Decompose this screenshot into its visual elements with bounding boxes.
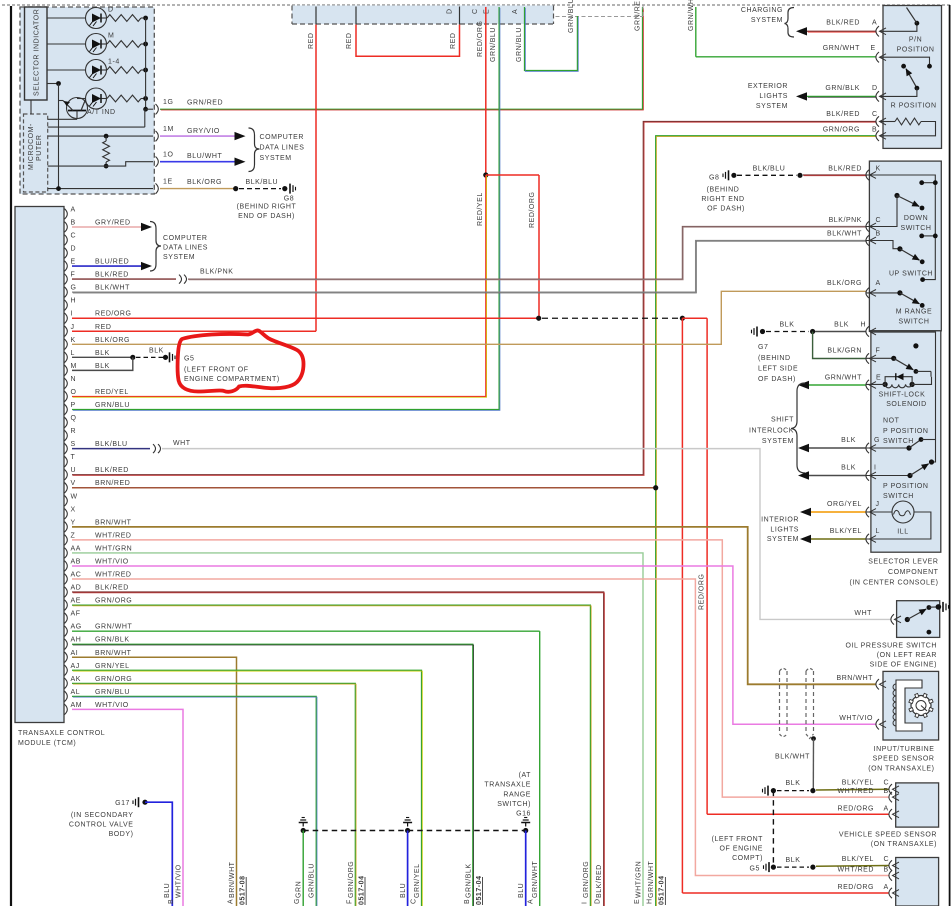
svg-text:T: T bbox=[71, 454, 76, 461]
svg-text:(LEFT FRONT: (LEFT FRONT bbox=[712, 836, 764, 843]
wire BLK/WHT pin G bbox=[72, 241, 866, 293]
svg-text:O: O bbox=[71, 389, 77, 396]
wire GRN/YEL pin AJ bbox=[72, 670, 422, 906]
svg-text:GRN/WHT: GRN/WHT bbox=[825, 374, 862, 381]
svg-text:A: A bbox=[228, 899, 235, 904]
svg-text:1-4: 1-4 bbox=[108, 59, 120, 66]
svg-text:RED: RED bbox=[308, 33, 315, 49]
wire GRY/RED pin B bbox=[72, 226, 141, 228]
svg-text:SWITCH: SWITCH bbox=[883, 493, 914, 500]
wire RED/ORG to VSS1 pin A bbox=[706, 318, 708, 814]
svg-text:INTERIOR: INTERIOR bbox=[761, 517, 799, 524]
svg-text:(LEFT FRONT OF: (LEFT FRONT OF bbox=[184, 367, 249, 374]
svg-text:V: V bbox=[71, 480, 76, 487]
wire BLK/ORG pin K to M range switch bbox=[72, 291, 866, 344]
TCM pin S bbox=[65, 443, 68, 453]
resistor row M bbox=[107, 41, 141, 48]
svg-text:A: A bbox=[872, 20, 877, 27]
svg-text:X: X bbox=[71, 506, 76, 513]
pin H internal rail bbox=[871, 332, 936, 462]
wire BRN/RED pin V bbox=[72, 487, 656, 489]
TCM pin C bbox=[65, 235, 68, 245]
svg-text:GRN/ORG: GRN/ORG bbox=[823, 127, 860, 134]
transistor Q1 bbox=[67, 98, 88, 119]
svg-text:AA: AA bbox=[71, 545, 81, 552]
vehicle speed sensor box (1) bbox=[896, 783, 939, 827]
svg-text:(IN CENTER CONSOLE): (IN CENTER CONSOLE) bbox=[849, 580, 938, 587]
TCM pin F bbox=[65, 274, 68, 284]
wire GRN/BLK to P/N pin D bbox=[796, 92, 807, 100]
page right border bbox=[949, 5, 951, 906]
wire GRN/BLK pin AH bbox=[72, 644, 473, 906]
svg-text:BRN/RED: BRN/RED bbox=[95, 480, 130, 487]
TCM pin H bbox=[65, 300, 68, 310]
M range switch bbox=[866, 288, 869, 298]
svg-text:BLK: BLK bbox=[149, 347, 164, 354]
TCM pin O bbox=[65, 391, 68, 401]
svg-text:BLK/GRN: BLK/GRN bbox=[827, 348, 862, 355]
svg-text:WHT/VIO: WHT/VIO bbox=[176, 864, 183, 898]
svg-text:SHIFT: SHIFT bbox=[771, 417, 794, 424]
svg-text:G: G bbox=[874, 437, 880, 444]
computer data lines bracket (top) bbox=[249, 128, 260, 172]
svg-text:Z: Z bbox=[71, 532, 76, 539]
svg-text:DOWN: DOWN bbox=[904, 215, 928, 222]
svg-text:BLK/ORG: BLK/ORG bbox=[187, 179, 222, 186]
G5 dashes VSS1 bbox=[767, 786, 769, 796]
svg-text:B: B bbox=[168, 899, 175, 904]
svg-text:F: F bbox=[71, 272, 76, 279]
svg-text:RED/YEL: RED/YEL bbox=[95, 389, 129, 396]
svg-text:AG: AG bbox=[71, 624, 82, 631]
svg-text:J: J bbox=[876, 501, 880, 508]
svg-text:GRN/BLK: GRN/BLK bbox=[465, 863, 472, 898]
svg-text:G: G bbox=[294, 898, 301, 904]
svg-text:BLK/PNK: BLK/PNK bbox=[829, 217, 862, 224]
svg-text:H: H bbox=[861, 322, 867, 329]
wire GRN/BLU pin AL bbox=[72, 696, 316, 906]
pin 1M bbox=[156, 131, 159, 141]
svg-text:A: A bbox=[876, 280, 881, 287]
ground G16 c bbox=[523, 828, 528, 833]
svg-text:K: K bbox=[876, 165, 881, 172]
svg-text:I: I bbox=[581, 902, 588, 905]
svg-text:BLK/WHT: BLK/WHT bbox=[827, 230, 862, 237]
svg-text:BLK/WHT: BLK/WHT bbox=[95, 285, 130, 292]
VSS1 pin B bbox=[889, 792, 892, 802]
svg-text:C: C bbox=[884, 856, 890, 863]
svg-text:Q: Q bbox=[71, 415, 77, 422]
svg-text:EXTERIOR: EXTERIOR bbox=[748, 83, 788, 90]
svg-text:BLK: BLK bbox=[841, 437, 856, 444]
selector indicator box bbox=[25, 7, 48, 100]
svg-text:BLU/RED: BLU/RED bbox=[95, 259, 129, 266]
TCM pin AK bbox=[65, 678, 68, 688]
svg-text:AJ: AJ bbox=[71, 663, 80, 670]
svg-text:GRN/WHT: GRN/WHT bbox=[95, 624, 132, 631]
svg-text:G8: G8 bbox=[284, 196, 294, 203]
svg-text:BLK/RED: BLK/RED bbox=[95, 272, 129, 279]
svg-text:F: F bbox=[346, 899, 353, 904]
wire BLU to bottom bbox=[525, 831, 527, 906]
svg-text:G8: G8 bbox=[709, 174, 719, 181]
svg-text:AB: AB bbox=[71, 558, 81, 565]
svg-text:ILL: ILL bbox=[897, 529, 908, 536]
svg-text:D: D bbox=[872, 85, 878, 92]
TCM pin AI bbox=[65, 652, 68, 662]
svg-text:OF DASH): OF DASH) bbox=[707, 206, 745, 213]
TCM pin N bbox=[65, 378, 68, 388]
svg-text:NOT: NOT bbox=[883, 418, 900, 425]
TCM pin B bbox=[65, 222, 68, 232]
small dashed strip top right bbox=[556, 16, 644, 18]
svg-text:G5: G5 bbox=[750, 865, 760, 872]
svg-text:(ON TRANSAXLE): (ON TRANSAXLE) bbox=[871, 841, 937, 848]
LED A/T IND row wire bbox=[77, 98, 86, 100]
svg-text:GRN/WHT: GRN/WHT bbox=[823, 45, 860, 52]
svg-text:LIGHTS: LIGHTS bbox=[759, 93, 788, 100]
svg-text:GRN/BLU: GRN/BLU bbox=[95, 689, 130, 696]
svg-text:RIGHT END: RIGHT END bbox=[701, 196, 744, 203]
svg-text:AE: AE bbox=[71, 598, 81, 605]
input/turbine speed sensor box bbox=[883, 671, 939, 740]
svg-text:BLU: BLU bbox=[164, 883, 171, 898]
1E wire bbox=[48, 188, 153, 190]
svg-text:(BEHIND: (BEHIND bbox=[758, 355, 791, 362]
svg-text:RED: RED bbox=[346, 33, 353, 49]
P/N position switch bbox=[876, 26, 879, 36]
1M wire bbox=[48, 135, 153, 137]
wire BLU to bottom bbox=[407, 831, 409, 906]
svg-text:ENGINE COMPARTMENT): ENGINE COMPARTMENT) bbox=[184, 376, 280, 383]
svg-text:P/N: P/N bbox=[909, 37, 922, 44]
TCM pin X bbox=[65, 509, 68, 519]
svg-text:RED: RED bbox=[95, 324, 111, 331]
svg-text:1E: 1E bbox=[163, 179, 173, 186]
TCM pin K bbox=[65, 339, 68, 349]
wire BLK pin M bbox=[72, 357, 133, 370]
R position resistor pin C bbox=[876, 116, 879, 126]
ground G5 bbox=[768, 862, 770, 872]
instrument cluster connector strip (dashed) bbox=[292, 6, 554, 25]
svg-text:GRN/WHT: GRN/WHT bbox=[688, 0, 695, 31]
wire BLK/YEL pin L bbox=[800, 535, 811, 543]
svg-text:R: R bbox=[71, 428, 77, 435]
svg-text:B: B bbox=[464, 899, 471, 904]
svg-text:(BEHIND: (BEHIND bbox=[707, 187, 740, 194]
wire BLU from G17 bbox=[145, 802, 172, 906]
svg-text:END OF DASH): END OF DASH) bbox=[238, 213, 295, 220]
pin 1G bbox=[156, 104, 159, 114]
LED 1-4 bbox=[86, 60, 107, 81]
svg-text:P: P bbox=[71, 402, 76, 409]
svg-text:D: D bbox=[71, 246, 77, 253]
svg-text:BLK: BLK bbox=[780, 322, 795, 329]
page left border bbox=[10, 6, 12, 906]
svg-text:WHT/RED: WHT/RED bbox=[95, 572, 132, 579]
svg-text:A: A bbox=[884, 884, 889, 891]
solenoid symbol bbox=[883, 382, 888, 387]
svg-text:D: D bbox=[447, 8, 454, 14]
svg-text:BLK/ORG: BLK/ORG bbox=[95, 337, 130, 344]
svg-text:H: H bbox=[71, 298, 77, 305]
svg-text:A: A bbox=[512, 9, 519, 14]
svg-text:GRN/ORG: GRN/ORG bbox=[348, 861, 355, 898]
svg-text:RED/ORG: RED/ORG bbox=[529, 191, 536, 228]
wire GRN/WHT pin AG bbox=[72, 630, 540, 632]
junction RED/ORG split to RED/YEL bbox=[483, 172, 488, 177]
svg-text:D: D bbox=[108, 7, 114, 14]
TCM pin AL bbox=[65, 691, 68, 701]
svg-text:BLK/RED: BLK/RED bbox=[828, 165, 862, 172]
svg-text:AK: AK bbox=[71, 676, 81, 683]
svg-text:SOLENOID: SOLENOID bbox=[886, 401, 927, 408]
svg-text:G16: G16 bbox=[516, 811, 531, 818]
TCM pin AG bbox=[65, 626, 68, 636]
resistor row 1-4 bbox=[107, 67, 141, 74]
resistor row D bbox=[107, 15, 141, 22]
svg-text:0517-04: 0517-04 bbox=[476, 875, 483, 905]
wire GRN/ORG P/N pin B down right side bbox=[656, 136, 876, 906]
VSS1 pin A bbox=[707, 813, 889, 815]
P/N & R position switch block bbox=[883, 6, 942, 149]
pin K arc bbox=[866, 170, 869, 180]
svg-text:C: C bbox=[71, 232, 77, 239]
LED M bbox=[86, 34, 107, 55]
selector box to base bus bbox=[47, 83, 59, 85]
svg-text:AL: AL bbox=[71, 689, 81, 696]
svg-text:Y: Y bbox=[71, 519, 76, 526]
svg-text:POSITION: POSITION bbox=[897, 46, 935, 53]
svg-text:MICROCOM-: MICROCOM- bbox=[28, 123, 35, 170]
wire GRN/WHT pin E (shift interlock) bbox=[798, 381, 809, 389]
svg-text:E: E bbox=[876, 374, 881, 381]
wire BLK/RED to P/N pin A bbox=[796, 27, 807, 35]
svg-text:BRN/WHT: BRN/WHT bbox=[229, 861, 236, 898]
svg-text:(ON LEFT REAR: (ON LEFT REAR bbox=[877, 652, 937, 659]
svg-text:E: E bbox=[483, 9, 490, 14]
svg-text:DATA LINES: DATA LINES bbox=[163, 245, 208, 252]
TCM pin R bbox=[65, 430, 68, 440]
sensor icon bbox=[896, 680, 922, 731]
svg-text:RED/ORG: RED/ORG bbox=[477, 20, 484, 57]
wire BRN/WHT pin Y to input speed sensor bbox=[72, 527, 876, 684]
svg-text:GRN/RED: GRN/RED bbox=[635, 0, 642, 31]
svg-text:UP SWITCH: UP SWITCH bbox=[889, 271, 933, 278]
svg-text:F: F bbox=[876, 348, 881, 355]
svg-text:BLK: BLK bbox=[786, 780, 801, 787]
twisted pair shield bbox=[779, 671, 781, 734]
svg-text:M: M bbox=[108, 33, 114, 40]
svg-text:WHT: WHT bbox=[173, 440, 191, 447]
svg-text:C: C bbox=[872, 111, 878, 118]
svg-text:G17: G17 bbox=[115, 800, 130, 807]
wire GRN to bottom bbox=[302, 831, 304, 906]
svg-text:M: M bbox=[71, 363, 77, 370]
svg-text:C: C bbox=[884, 780, 890, 787]
wire BLK/RED P/N pin C to TCM pin U bbox=[72, 122, 876, 475]
wire BLK pin G bbox=[798, 444, 809, 452]
wire BLU/RED pin E bbox=[72, 265, 141, 267]
wire WHT/RED pin Z to VSS1 pin B bbox=[72, 540, 889, 797]
oil pressure switch box bbox=[897, 601, 940, 638]
VSS2 pin A bbox=[682, 892, 889, 894]
svg-text:WHT: WHT bbox=[854, 610, 872, 617]
LED D bbox=[86, 8, 107, 29]
svg-text:BLK/YEL: BLK/YEL bbox=[842, 780, 874, 787]
TCM pin E bbox=[65, 261, 68, 271]
svg-text:AF: AF bbox=[71, 611, 81, 618]
svg-text:COMPUTER: COMPUTER bbox=[260, 134, 304, 141]
svg-text:I: I bbox=[874, 465, 877, 472]
LED bus vertical bbox=[145, 18, 147, 109]
svg-text:WHT/GRN: WHT/GRN bbox=[636, 861, 643, 898]
svg-text:AC: AC bbox=[71, 572, 82, 579]
svg-text:AI: AI bbox=[71, 650, 79, 657]
svg-text:BLK/YEL: BLK/YEL bbox=[830, 528, 862, 535]
svg-text:SPEED SENSOR: SPEED SENSOR bbox=[873, 756, 935, 763]
svg-text:BRN/WHT: BRN/WHT bbox=[95, 650, 132, 657]
wire GRN/ORG pin AK bbox=[72, 683, 355, 906]
wire WHT/VIO pin AB to input speed sensor bbox=[72, 566, 876, 724]
svg-text:GRN/RED: GRN/RED bbox=[187, 100, 223, 107]
svg-text:SHIFT-LOCK: SHIFT-LOCK bbox=[879, 391, 926, 398]
wire WHT/VIO pin AM bbox=[72, 709, 183, 906]
TCM pin Y bbox=[65, 522, 68, 532]
wire RED/ORG pin I with splices bbox=[72, 317, 539, 319]
svg-text:A: A bbox=[528, 899, 535, 904]
svg-text:(IN SECONDARY: (IN SECONDARY bbox=[71, 812, 134, 819]
pin 1O bbox=[156, 157, 159, 167]
svg-text:(AT: (AT bbox=[519, 772, 532, 779]
svg-text:BLK: BLK bbox=[95, 363, 110, 370]
svg-text:BLK: BLK bbox=[95, 350, 110, 357]
TCM pin V bbox=[65, 483, 68, 493]
svg-text:BLK/BLU: BLK/BLU bbox=[95, 441, 128, 448]
pin C arc bbox=[866, 221, 869, 231]
svg-text:0517-04: 0517-04 bbox=[659, 875, 666, 905]
TCM pin P bbox=[65, 404, 68, 414]
svg-text:SELECTOR INDICATOR: SELECTOR INDICATOR bbox=[34, 9, 41, 96]
svg-text:WHT/GRN: WHT/GRN bbox=[95, 545, 132, 552]
svg-text:SYSTEM: SYSTEM bbox=[260, 155, 292, 162]
LED D row wire bbox=[47, 17, 86, 19]
svg-text:WHT/VIO: WHT/VIO bbox=[839, 715, 873, 722]
not-P-position NC contact dot bbox=[913, 343, 918, 348]
ground G16 a bbox=[301, 828, 306, 833]
wire BLK/RED pin AD bbox=[72, 592, 604, 906]
svg-text:A: A bbox=[71, 206, 76, 213]
R position switch bbox=[876, 52, 879, 62]
svg-text:BLU: BLU bbox=[400, 883, 407, 898]
svg-text:BLK/RED: BLK/RED bbox=[596, 864, 603, 898]
svg-text:AD: AD bbox=[71, 585, 82, 592]
svg-text:(ON TRANSAXLE): (ON TRANSAXLE) bbox=[868, 765, 934, 772]
svg-text:GRN/BLU: GRN/BLU bbox=[568, 0, 575, 33]
svg-text:G: G bbox=[71, 285, 77, 292]
TCM pin AJ bbox=[65, 665, 68, 675]
svg-text:TRANSAXLE CONTROL: TRANSAXLE CONTROL bbox=[18, 730, 105, 737]
1O wire bbox=[48, 162, 153, 166]
TCM pin AC bbox=[65, 574, 68, 584]
ground bus G16 dashed bbox=[303, 830, 526, 832]
svg-text:BLK/RED: BLK/RED bbox=[826, 111, 860, 118]
svg-text:C: C bbox=[472, 8, 479, 14]
svg-text:0517-08: 0517-08 bbox=[240, 875, 247, 905]
svg-text:A/T IND: A/T IND bbox=[87, 109, 116, 116]
splice to G8 bbox=[233, 186, 238, 191]
svg-text:A: A bbox=[884, 806, 889, 813]
wire GRN/ORG pin AE bbox=[72, 605, 590, 906]
wire BLK pin I bbox=[798, 471, 809, 479]
svg-text:1G: 1G bbox=[163, 99, 173, 106]
svg-text:DATA LINES: DATA LINES bbox=[260, 145, 305, 152]
wire WHT/GRN pin AA bbox=[72, 553, 643, 906]
svg-text:BRN/WHT: BRN/WHT bbox=[95, 519, 132, 526]
svg-text:CHARGING: CHARGING bbox=[741, 7, 783, 14]
svg-text:0517-04: 0517-04 bbox=[358, 875, 365, 905]
svg-text:G5: G5 bbox=[184, 355, 194, 362]
svg-text:GRN/BLU: GRN/BLU bbox=[95, 402, 130, 409]
svg-text:TRANSAXLE: TRANSAXLE bbox=[484, 782, 531, 789]
TCM pin AD bbox=[65, 587, 68, 597]
svg-text:U: U bbox=[71, 467, 77, 474]
down/up/M-range switch block bbox=[869, 161, 941, 331]
svg-text:SIDE OF ENGINE): SIDE OF ENGINE) bbox=[870, 662, 937, 669]
svg-text:WHT/VIO: WHT/VIO bbox=[95, 702, 129, 709]
svg-text:GRN/WHT: GRN/WHT bbox=[532, 861, 539, 898]
TCM pin J bbox=[65, 326, 68, 336]
svg-text:L: L bbox=[71, 350, 75, 357]
svg-text:VEHICLE SPEED SENSOR: VEHICLE SPEED SENSOR bbox=[839, 832, 937, 839]
svg-text:C: C bbox=[876, 217, 882, 224]
svg-text:OF DASH): OF DASH) bbox=[758, 376, 796, 383]
TCM pin M bbox=[65, 365, 68, 375]
svg-text:1M: 1M bbox=[163, 126, 174, 133]
wire ORG/YEL pin J bbox=[800, 508, 811, 516]
svg-text:WHT/RED: WHT/RED bbox=[95, 532, 132, 539]
wire BLK/BLU pin S / WHT to oil pressure switch bbox=[72, 448, 150, 450]
svg-text:J: J bbox=[71, 324, 75, 331]
svg-text:GRY/RED: GRY/RED bbox=[95, 219, 131, 226]
svg-text:E: E bbox=[634, 899, 641, 904]
svg-text:WHT/VIO: WHT/VIO bbox=[95, 558, 129, 565]
vehicle speed sensor box (2) bbox=[896, 858, 939, 906]
svg-text:BODY): BODY) bbox=[109, 831, 134, 838]
pin H arc bbox=[866, 326, 869, 336]
ground G16 b bbox=[405, 828, 410, 833]
svg-text:RED: RED bbox=[450, 33, 457, 49]
svg-text:RED/ORG: RED/ORG bbox=[95, 311, 132, 318]
up switch bbox=[866, 235, 869, 245]
svg-text:GRN/BLU: GRN/BLU bbox=[516, 27, 523, 62]
ILL lamp bbox=[866, 511, 892, 513]
svg-text:S: S bbox=[71, 441, 76, 448]
svg-text:B: B bbox=[71, 219, 76, 226]
svg-text:K: K bbox=[71, 337, 76, 344]
svg-text:LIGHTS: LIGHTS bbox=[770, 526, 799, 533]
svg-text:1O: 1O bbox=[163, 152, 173, 159]
micro wire to 1G junction bbox=[48, 126, 145, 128]
G7 ground and BLK splice bbox=[756, 327, 758, 337]
TCM pin Q bbox=[65, 417, 68, 427]
svg-text:GRN/BLK: GRN/BLK bbox=[95, 637, 130, 644]
TCM pin G bbox=[65, 287, 68, 297]
TCM pin L bbox=[65, 352, 68, 362]
svg-text:INPUT/TURBINE: INPUT/TURBINE bbox=[874, 746, 935, 753]
svg-text:GRN/BLU: GRN/BLU bbox=[490, 27, 497, 62]
svg-text:SELECTOR LEVER: SELECTOR LEVER bbox=[868, 559, 938, 566]
